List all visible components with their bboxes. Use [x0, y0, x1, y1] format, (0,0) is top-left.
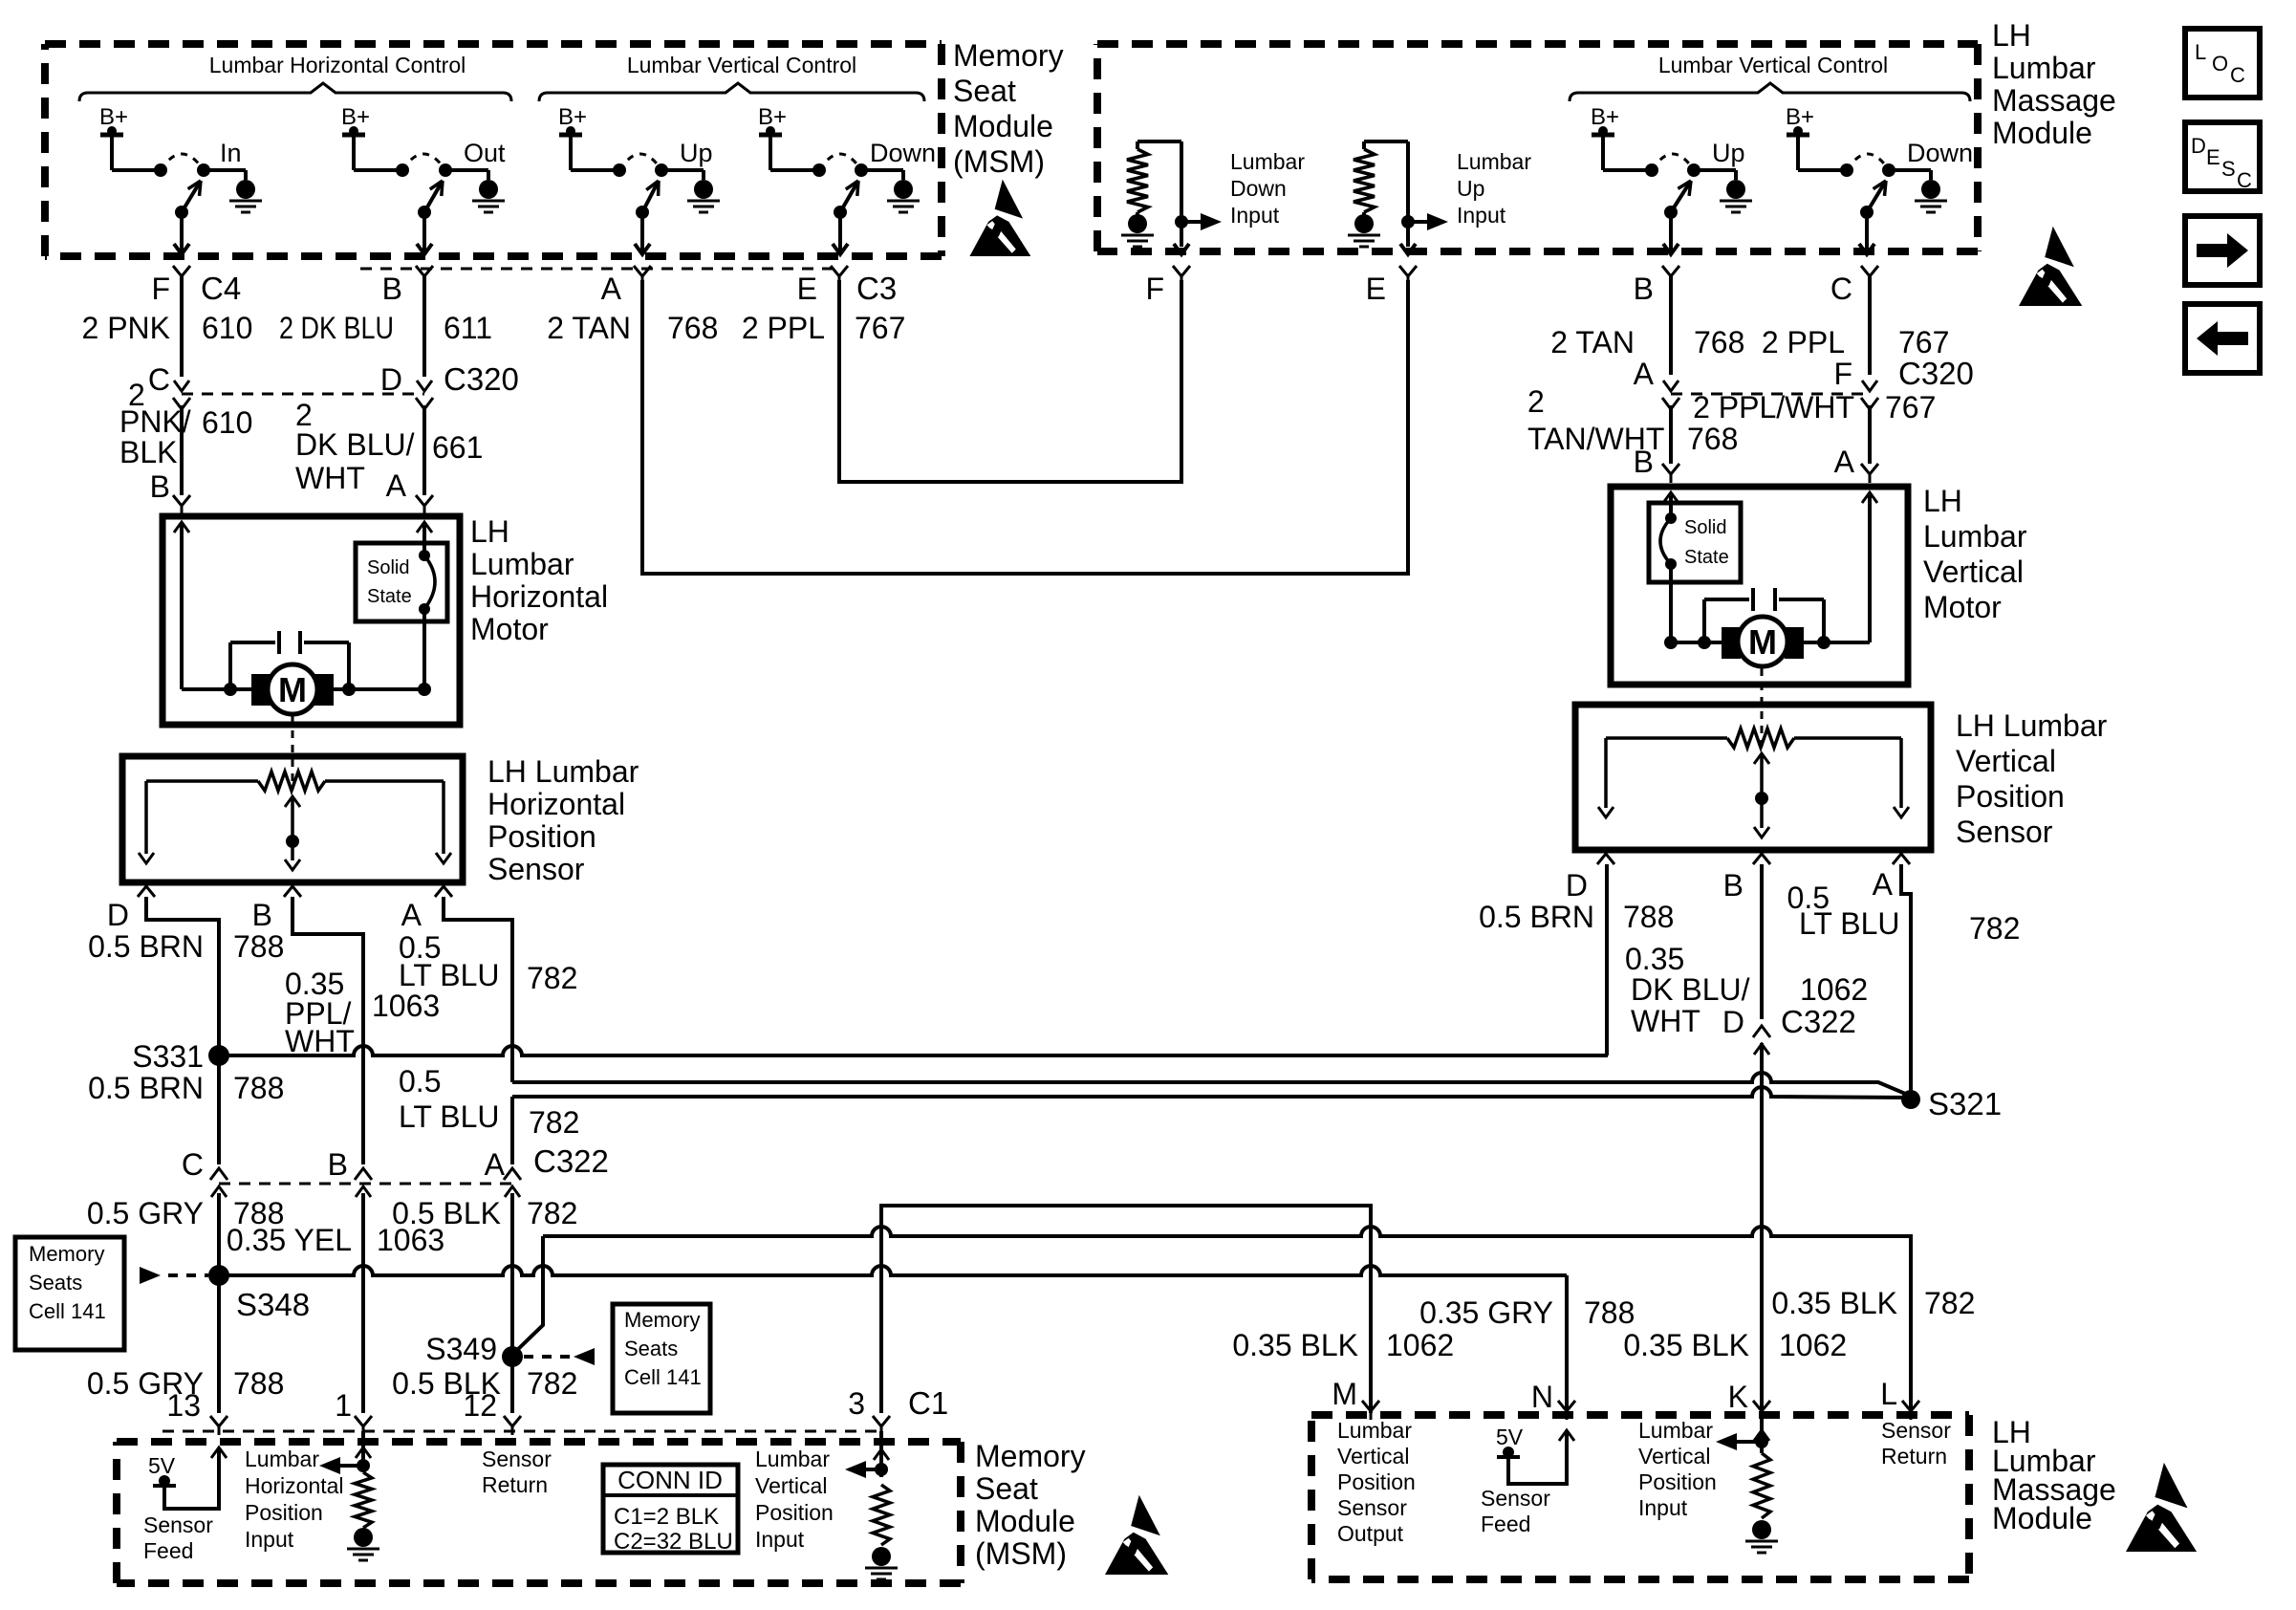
- svg-text:A: A: [1634, 357, 1655, 391]
- svg-text:Down: Down: [1907, 139, 1973, 167]
- module box: Memory Seat Module (MSM) bottom: [117, 1442, 961, 1583]
- motor M1 armature: [182, 687, 253, 691]
- svg-text:788: 788: [233, 929, 284, 964]
- svg-text:Solid: Solid: [367, 557, 409, 578]
- wire bus: 0.35 GRY 788 (S348 to pin N): [219, 1266, 1567, 1275]
- svg-text:Lumbar: Lumbar: [245, 1447, 319, 1471]
- svg-text:Position: Position: [1638, 1469, 1717, 1494]
- C320 terminal marks pin C: [174, 381, 189, 391]
- svg-text:Position: Position: [1337, 1469, 1416, 1494]
- resistor: Lumbar Vertical Position Input: [879, 1431, 883, 1477]
- svg-text:S348: S348: [236, 1287, 310, 1322]
- resistor: Lumbar Down Input with ground: [1137, 140, 1181, 143]
- callout box: Memory Seats Cell 141 (right): [613, 1304, 710, 1413]
- svg-text:Vertical: Vertical: [755, 1473, 827, 1498]
- right sensor pin fork at x=1843: [1753, 854, 1770, 864]
- svg-text:Sensor: Sensor: [1337, 1495, 1407, 1520]
- svg-text:Memory: Memory: [953, 38, 1064, 73]
- svg-text:2 PPL/WHT: 2 PPL/WHT: [1693, 390, 1854, 424]
- svg-text:A: A: [601, 272, 622, 306]
- CONN ID table box: [603, 1465, 738, 1553]
- svg-text:Solid: Solid: [1684, 517, 1726, 538]
- terminal fork MSM pin 12: [504, 1416, 521, 1426]
- svg-text:Motor: Motor: [1923, 590, 2002, 624]
- svg-text:LH: LH: [1923, 484, 1962, 518]
- solid-state switch arc (right): [1660, 518, 1671, 564]
- dashed mechanical link motor-sensor (right): [1761, 668, 1764, 747]
- svg-text:E: E: [1366, 272, 1386, 306]
- wire: 0.5 LT BLU 782 (A to bus): [444, 897, 512, 1082]
- svg-text:767: 767: [1885, 390, 1936, 424]
- svg-text:Feed: Feed: [1481, 1512, 1530, 1536]
- svg-text:F: F: [1145, 272, 1164, 306]
- svg-text:L: L: [2195, 40, 2206, 64]
- svg-text:B+: B+: [1591, 104, 1619, 130]
- svg-text:C: C: [2230, 63, 2245, 87]
- svg-text:N: N: [1531, 1380, 1553, 1414]
- wire: 0.5 LT BLU 782 (right A to S321): [1901, 864, 1911, 1096]
- svg-text:Down: Down: [870, 139, 936, 167]
- svg-text:Sensor: Sensor: [143, 1512, 213, 1537]
- C322 terminal marks pin D (right): [1754, 1044, 1769, 1055]
- svg-text:M: M: [278, 670, 307, 709]
- svg-text:Lumbar: Lumbar: [1992, 51, 2096, 85]
- svg-text:S: S: [2221, 157, 2236, 181]
- svg-text:LH: LH: [1992, 18, 2031, 53]
- C320 marks pin F (right): [1862, 381, 1877, 391]
- solid state switch box (right motor): [1649, 503, 1741, 582]
- svg-text:C2=32 BLU: C2=32 BLU: [614, 1529, 733, 1555]
- svg-text:1062: 1062: [1800, 972, 1868, 1007]
- svg-text:2: 2: [1527, 384, 1545, 419]
- svg-text:D: D: [2191, 134, 2206, 158]
- ESD symbol (bottom-middle): [1105, 1495, 1168, 1575]
- svg-text:788: 788: [1623, 900, 1674, 934]
- svg-text:B: B: [1634, 272, 1654, 306]
- svg-text:A: A: [401, 898, 422, 932]
- wire bus: 0.5 BRN 788 (S331 to right sensor D): [219, 1046, 1608, 1055]
- ESD symbol (top-right): [2019, 227, 2082, 306]
- C322 terminal marks pin C: [211, 1186, 227, 1197]
- callout dashed link to S348: [168, 1273, 208, 1277]
- resistor: Lumbar Vertical Position Input (right): [1760, 1415, 1764, 1453]
- svg-text:C: C: [148, 362, 170, 397]
- svg-text:O: O: [2212, 52, 2228, 76]
- wire: 2 PNK/BLK 610 to motor: [180, 405, 184, 495]
- svg-text:C: C: [182, 1147, 204, 1182]
- svg-text:Lumbar: Lumbar: [1457, 149, 1531, 174]
- wire: 0.35 GRY 788 down to pin N: [1565, 1275, 1569, 1411]
- svg-text:767: 767: [855, 311, 905, 345]
- component box: LH Lumbar Horizontal Position Sensor: [122, 756, 463, 882]
- svg-text:DK BLU/: DK BLU/: [295, 427, 415, 462]
- svg-text:A: A: [485, 1147, 506, 1182]
- svg-text:Output: Output: [1337, 1521, 1404, 1546]
- svg-text:Memory: Memory: [975, 1439, 1086, 1473]
- svg-text:0.35 GRY: 0.35 GRY: [1419, 1295, 1553, 1330]
- svg-text:C1: C1: [908, 1385, 948, 1421]
- RFI capacitor (left motor): [277, 631, 281, 654]
- svg-text:768: 768: [667, 311, 718, 345]
- svg-text:State: State: [1684, 547, 1729, 568]
- splice S348: [208, 1265, 229, 1286]
- wire: 0.5 BLK 782 (S349 to pin 12): [510, 1357, 514, 1413]
- svg-text:Up: Up: [1712, 139, 1745, 167]
- svg-text:2 PPL: 2 PPL: [1762, 325, 1845, 359]
- svg-text:D: D: [107, 898, 129, 932]
- svg-text:1062: 1062: [1386, 1328, 1454, 1362]
- connector terminal fork at x=672: [634, 266, 651, 276]
- wire: 2 PPL 767 (right): [1868, 276, 1872, 375]
- connector terminal fork at x=190: [173, 266, 190, 276]
- svg-text:B: B: [328, 1147, 348, 1182]
- wire: 0.5 GRY 788 (C to S348): [217, 1193, 221, 1272]
- svg-text:0.5 BRN: 0.5 BRN: [88, 1071, 204, 1105]
- svg-text:611: 611: [444, 311, 492, 345]
- RFI capacitor (right motor): [1751, 588, 1755, 611]
- svg-text:768: 768: [1694, 325, 1744, 359]
- potentiometer track (left): [146, 779, 258, 783]
- svg-text:Return: Return: [1881, 1444, 1947, 1469]
- callout arrow (S349): [574, 1348, 595, 1365]
- terminal fork pin F (right module): [1173, 266, 1190, 276]
- svg-text:Cell 141: Cell 141: [624, 1365, 702, 1389]
- splice S349: [502, 1346, 523, 1367]
- svg-text:0.35 BLK: 0.35 BLK: [1771, 1286, 1897, 1320]
- wire: 2 TAN/WHT 768 to motor B: [1669, 405, 1673, 464]
- svg-text:768: 768: [1687, 422, 1738, 456]
- svg-text:In: In: [220, 139, 242, 167]
- svg-text:Seat: Seat: [975, 1471, 1038, 1506]
- svg-text:Input: Input: [1230, 203, 1280, 228]
- svg-text:788: 788: [1584, 1295, 1635, 1330]
- svg-text:C3: C3: [856, 271, 897, 306]
- svg-text:LH Lumbar: LH Lumbar: [487, 754, 639, 789]
- resistor: Lumbar Horizontal Position Input: [361, 1431, 365, 1472]
- svg-text:D: D: [380, 362, 402, 397]
- svg-text:0.5 GRY: 0.5 GRY: [87, 1196, 204, 1230]
- wire: 0.5 BRN 788 (D to S331): [146, 897, 219, 1052]
- wire: 2 TAN 768 (right): [1669, 276, 1673, 375]
- splice S331: [208, 1045, 229, 1066]
- svg-text:State: State: [367, 586, 412, 607]
- svg-text:Vertical: Vertical: [1956, 744, 2056, 778]
- icon box: DESC: [2185, 122, 2260, 191]
- wire: 2 DK BLU/WHT 661 to motor: [422, 405, 426, 495]
- svg-text:2 TAN: 2 TAN: [547, 311, 631, 345]
- svg-text:E: E: [2206, 145, 2220, 169]
- svg-text:788: 788: [233, 1366, 284, 1401]
- wire bus: 0.35 BLK 782 (S349 to pin L): [543, 1227, 1911, 1411]
- svg-text:A: A: [1834, 445, 1855, 479]
- svg-text:Lumbar Vertical Control: Lumbar Vertical Control: [1658, 53, 1888, 77]
- svg-text:C: C: [1830, 272, 1852, 306]
- module box: Memory Seat Module (MSM) switch assembly: [45, 44, 942, 256]
- connector C320 dashed line (right): [1671, 393, 1870, 396]
- svg-text:Module: Module: [953, 109, 1053, 143]
- svg-text:767: 767: [1898, 325, 1949, 359]
- wire: 0.35 BLK 1062 (C322 D to pin K): [1760, 1043, 1764, 1411]
- svg-text:B+: B+: [99, 104, 128, 130]
- svg-text:(MSM): (MSM): [953, 144, 1045, 179]
- svg-text:Lumbar Vertical Control: Lumbar Vertical Control: [627, 53, 856, 77]
- terminal fork pin E (right module): [1399, 266, 1417, 276]
- svg-text:WHT: WHT: [295, 461, 365, 495]
- connector dashed line C4/C3: [360, 268, 838, 271]
- svg-text:610: 610: [202, 405, 252, 440]
- C322 terminal marks pin B: [356, 1186, 371, 1197]
- svg-text:C4: C4: [201, 271, 241, 306]
- component box: LH Lumbar Horizontal Motor: [162, 516, 460, 725]
- svg-text:BLK: BLK: [119, 435, 177, 469]
- connector C1 dashed line: [162, 1430, 879, 1433]
- svg-text:Horizontal: Horizontal: [487, 787, 625, 821]
- terminal fork MSM pin 3: [873, 1416, 890, 1426]
- connector C320 dashed line (left): [182, 393, 424, 396]
- component box: LH Lumbar Vertical Motor: [1611, 487, 1908, 685]
- svg-text:B+: B+: [341, 104, 370, 130]
- module box: LH Lumbar Massage Module (bottom): [1311, 1415, 1969, 1579]
- icon box: arrow right: [2185, 216, 2260, 285]
- svg-text:Sensor: Sensor: [482, 1447, 552, 1471]
- svg-text:Input: Input: [1638, 1495, 1688, 1520]
- svg-text:S349: S349: [425, 1332, 497, 1366]
- terminal fork motor pin B (right): [1662, 464, 1679, 474]
- splice S321: [1901, 1090, 1920, 1109]
- icon box: LOC: [2185, 29, 2260, 98]
- connector C322 dashed line: [219, 1183, 516, 1186]
- terminal fork pin N (right module): [1558, 1401, 1575, 1411]
- sensor pin fork at x=153: [138, 886, 155, 897]
- svg-text:Massage: Massage: [1992, 83, 2116, 118]
- svg-text:M: M: [1748, 622, 1777, 662]
- svg-text:S321: S321: [1928, 1086, 2002, 1121]
- motor internal wiring (left): [174, 522, 189, 533]
- solid-state switch arc: [424, 555, 435, 609]
- svg-text:1063: 1063: [372, 989, 440, 1023]
- svg-text:(MSM): (MSM): [975, 1536, 1067, 1571]
- svg-text:E: E: [797, 272, 817, 306]
- svg-text:F: F: [1833, 357, 1852, 391]
- svg-text:L: L: [1880, 1377, 1897, 1411]
- wire: 0.5 GRY 788 (S348 to MSM pin 13): [217, 1275, 221, 1413]
- svg-text:0.5 BLK: 0.5 BLK: [392, 1196, 501, 1230]
- svg-text:Lumbar: Lumbar: [1337, 1418, 1412, 1443]
- motor M2 armature: [1671, 641, 1726, 644]
- svg-text:Seats: Seats: [29, 1271, 82, 1295]
- wire: 0.5 BRN 788 down to C322 pin C: [217, 1055, 221, 1164]
- svg-text:C322: C322: [533, 1143, 609, 1179]
- resistor: Lumbar Up Input with ground: [1364, 140, 1408, 143]
- callout box: Memory Seats Cell 141 (left): [15, 1237, 124, 1350]
- svg-text:5V: 5V: [148, 1453, 176, 1478]
- wire: 2 PPL 767 (Down switch to Lumbar Down Input F): [839, 280, 1181, 482]
- svg-text:Feed: Feed: [143, 1538, 193, 1563]
- svg-text:B: B: [252, 898, 272, 932]
- terminal fork at motor pin A: [416, 495, 433, 506]
- svg-text:Up: Up: [680, 139, 713, 167]
- ESD symbol (bottom-right): [2126, 1463, 2197, 1552]
- svg-text:Sensor: Sensor: [1481, 1486, 1550, 1511]
- wire: 0.35 PPL/WHT 1063 (B to C322): [292, 897, 363, 1164]
- svg-text:Position: Position: [487, 819, 596, 854]
- motor internal wiring (right): [1663, 492, 1679, 503]
- terminal fork pin C (right module): [1861, 266, 1878, 276]
- terminal fork MSM pin 1: [355, 1416, 372, 1426]
- svg-text:LT BLU: LT BLU: [399, 1099, 500, 1134]
- svg-text:782: 782: [1969, 911, 2020, 946]
- svg-text:B: B: [1634, 445, 1654, 479]
- terminal fork pin L (right module): [1902, 1401, 1919, 1411]
- svg-text:WHT: WHT: [285, 1024, 355, 1058]
- svg-text:Position: Position: [1956, 779, 2065, 814]
- svg-text:Sensor: Sensor: [1881, 1418, 1951, 1443]
- svg-text:Vertical: Vertical: [1923, 555, 2024, 589]
- wire: 2 PNK 610 (x=190): [180, 276, 184, 377]
- svg-text:782: 782: [529, 1105, 579, 1140]
- callout arrow (S348): [140, 1267, 161, 1284]
- svg-text:782: 782: [527, 1366, 577, 1401]
- svg-text:Input: Input: [245, 1527, 294, 1552]
- potentiometer wiper (right): [1754, 753, 1769, 764]
- svg-text:1: 1: [335, 1388, 352, 1423]
- svg-text:0.5: 0.5: [399, 1064, 441, 1099]
- svg-text:Lumbar: Lumbar: [470, 547, 574, 581]
- svg-text:F: F: [151, 272, 170, 306]
- svg-text:S331: S331: [132, 1039, 204, 1074]
- wire bus: 0.5 LT BLU 782 upper (to S321): [512, 1073, 1910, 1096]
- svg-text:2 PPL: 2 PPL: [742, 311, 825, 345]
- svg-text:0.35 YEL: 0.35 YEL: [227, 1223, 352, 1257]
- svg-text:A: A: [386, 468, 407, 503]
- svg-text:2 TAN: 2 TAN: [1550, 325, 1635, 359]
- svg-text:661: 661: [432, 430, 483, 465]
- svg-text:0.35: 0.35: [1625, 942, 1684, 976]
- svg-text:0.35 BLK: 0.35 BLK: [1623, 1328, 1749, 1362]
- svg-text:13: 13: [166, 1388, 201, 1423]
- svg-text:C1=2 BLK: C1=2 BLK: [614, 1504, 719, 1530]
- wire: 0.5 BLK 782 (A to S349): [510, 1193, 514, 1353]
- C322 terminal marks pin A: [505, 1186, 520, 1197]
- svg-text:LH Lumbar: LH Lumbar: [1956, 708, 2108, 743]
- svg-text:C322: C322: [1781, 1004, 1856, 1039]
- svg-text:C320: C320: [1898, 356, 1974, 391]
- svg-text:Position: Position: [755, 1500, 834, 1525]
- svg-text:2 DK BLU: 2 DK BLU: [279, 311, 394, 345]
- wire: 0.35 DK BLU/WHT 1062 (right B to C322 D): [1760, 864, 1764, 1019]
- svg-text:M: M: [1332, 1377, 1357, 1411]
- wire: 0.5 BLK 782 branch (S349 up to bus): [512, 1236, 543, 1355]
- right sensor pin fork at x=1989: [1893, 854, 1910, 864]
- terminal fork pin K (right module): [1753, 1401, 1770, 1411]
- wire: 2 DK BLU 611 (x=444): [422, 276, 426, 377]
- svg-text:3: 3: [848, 1386, 865, 1421]
- solid state switch box (left motor): [356, 543, 447, 621]
- svg-text:Return: Return: [482, 1472, 548, 1497]
- terminal fork at motor pin B: [173, 495, 190, 506]
- svg-text:5V: 5V: [1496, 1425, 1524, 1449]
- C320 terminal marks pin D: [417, 381, 432, 391]
- svg-text:Horizontal: Horizontal: [470, 579, 608, 614]
- svg-text:782: 782: [527, 1196, 577, 1230]
- svg-text:Module: Module: [1992, 1501, 2092, 1535]
- wire bus: 0.5 LT BLU 782 lower (to S321): [512, 1087, 1908, 1098]
- svg-text:K: K: [1728, 1380, 1748, 1414]
- svg-text:782: 782: [527, 961, 577, 995]
- potentiometer wiper (left): [285, 796, 300, 807]
- svg-text:Module: Module: [1992, 116, 2092, 150]
- svg-text:Position: Position: [245, 1500, 323, 1525]
- svg-text:Seat: Seat: [953, 74, 1016, 108]
- component box: LH Lumbar Vertical Position Sensor: [1575, 705, 1931, 850]
- svg-text:782: 782: [1924, 1286, 1975, 1320]
- svg-text:1062: 1062: [1779, 1328, 1847, 1362]
- svg-text:Lumbar: Lumbar: [755, 1447, 830, 1471]
- dashed mechanical link motor-sensor: [292, 716, 294, 790]
- svg-text:12: 12: [463, 1388, 497, 1423]
- svg-text:Lumbar: Lumbar: [1230, 149, 1305, 174]
- svg-text:Sensor: Sensor: [487, 852, 585, 886]
- svg-text:Up: Up: [1457, 176, 1484, 201]
- svg-text:610: 610: [202, 311, 252, 345]
- svg-text:Input: Input: [1457, 203, 1506, 228]
- svg-text:Cell 141: Cell 141: [29, 1299, 106, 1323]
- svg-text:LT BLU: LT BLU: [1799, 906, 1900, 941]
- svg-text:Down: Down: [1230, 176, 1287, 201]
- wire: 0.35 BLK 1062 (MSM pin3 to module pin M): [881, 1206, 1371, 1413]
- wire: 0.35 YEL 1063 (B to MSM pin 1): [361, 1193, 365, 1413]
- svg-text:B+: B+: [1786, 104, 1814, 130]
- ESD symbol (top-left): [969, 180, 1030, 256]
- svg-text:2 PNK: 2 PNK: [82, 311, 170, 345]
- brace: Lumbar Vertical Control (right): [1570, 83, 1970, 101]
- callout dashed link from S349: [524, 1355, 570, 1359]
- svg-text:B: B: [1723, 868, 1744, 903]
- svg-text:Input: Input: [755, 1527, 805, 1552]
- svg-text:Motor: Motor: [470, 612, 549, 646]
- wire: 0.5 BRN 788 (right D to S331 bus): [1605, 864, 1609, 1055]
- terminal fork motor pin A (right): [1861, 464, 1878, 474]
- svg-text:Memory: Memory: [29, 1242, 104, 1266]
- svg-text:D: D: [1722, 1005, 1744, 1039]
- svg-text:Lumbar: Lumbar: [1638, 1418, 1713, 1443]
- svg-text:Sensor: Sensor: [1956, 815, 2053, 849]
- svg-text:C: C: [2237, 168, 2252, 192]
- svg-text:0.5 BRN: 0.5 BRN: [1479, 900, 1594, 934]
- svg-text:LT BLU: LT BLU: [399, 958, 500, 992]
- wire: 0.5 LT BLU 782 (C322 A up to bus): [510, 1097, 514, 1164]
- svg-text:Lumbar: Lumbar: [1923, 519, 2027, 554]
- C320 marks pin A (right): [1663, 381, 1679, 391]
- wire: 2 TAN 768 (Up switch to Lumbar Up Input E): [642, 280, 1408, 574]
- svg-text:WHT: WHT: [1631, 1004, 1700, 1038]
- svg-text:Out: Out: [464, 139, 506, 167]
- wire: 2 PPL/WHT 767 to motor A: [1868, 405, 1872, 464]
- svg-text:Lumbar Horizontal Control: Lumbar Horizontal Control: [209, 53, 466, 77]
- terminal fork pin M (right module): [1362, 1401, 1379, 1411]
- brace: Lumbar Horizontal Control: [79, 83, 511, 101]
- brace: Lumbar Vertical Control (left): [539, 83, 924, 101]
- potentiometer track (right): [1606, 736, 1727, 740]
- connector terminal fork at x=878: [831, 266, 848, 276]
- svg-text:0.35 BLK: 0.35 BLK: [1232, 1328, 1358, 1362]
- right sensor pin fork at x=1680: [1597, 854, 1614, 864]
- sensor pin fork at x=464: [435, 886, 452, 897]
- module box: LH Lumbar Massage Module (top): [1097, 44, 1978, 251]
- sensor pin fork at x=306: [284, 886, 301, 897]
- terminal fork pin B (right module): [1662, 266, 1679, 276]
- svg-text:Module: Module: [975, 1504, 1075, 1538]
